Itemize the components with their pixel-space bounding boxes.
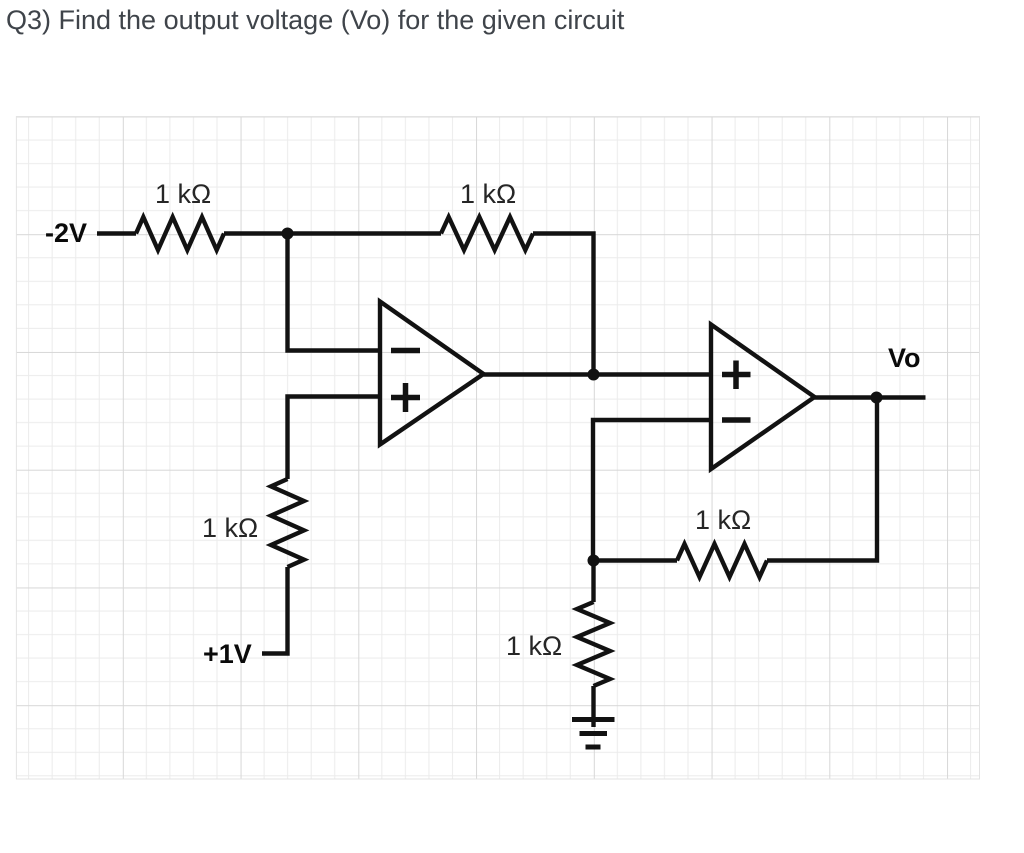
wire -2V lead [97, 231, 136, 235]
svg-text:1 kΩ: 1 kΩ [460, 179, 516, 209]
ground [572, 720, 615, 748]
op-amp U1 plus symbol [391, 383, 420, 412]
resistor R3 1 kΩ (vertical) [271, 479, 304, 567]
wire op1 output to op2 non-inverting input [484, 372, 712, 376]
node D junction dot [871, 392, 883, 404]
svg-text:1 kΩ: 1 kΩ [155, 179, 211, 209]
wire R3 to +1V [262, 567, 288, 654]
wire R4 to ground [591, 686, 595, 727]
svg-text:Vo: Vo [888, 343, 921, 373]
resistor R2 1 kΩ [441, 217, 533, 250]
svg-text:-2V: -2V [45, 218, 87, 248]
resistor R4 1 kΩ (vertical to ground) [577, 602, 610, 686]
svg-text:1 kΩ: 1 kΩ [506, 631, 562, 661]
svg-text:1 kΩ: 1 kΩ [202, 513, 258, 543]
op-amp U2 [711, 325, 815, 470]
resistor R5 1 kΩ (feedback) [677, 544, 767, 577]
wire op2 output Vo [815, 395, 926, 399]
grid background [16, 117, 979, 780]
resistor R1 1 kΩ [136, 217, 224, 250]
svg-text:1 kΩ: 1 kΩ [695, 505, 751, 535]
node C junction dot [588, 555, 600, 567]
op-amp U1 [380, 302, 484, 445]
node A junction dot [282, 228, 294, 240]
wire R2 to feedback corner down to op1 output node [533, 234, 594, 375]
wire op2 inverting input to node C [593, 420, 711, 561]
svg-text:+1V: +1V [203, 639, 252, 669]
wire node C down to R4 [591, 561, 595, 603]
op-amp U1 minus symbol [391, 348, 420, 354]
title [6, 5, 624, 36]
op-amp U2 minus symbol [722, 417, 751, 423]
wire node C to R5 [594, 558, 678, 562]
wire R5 to op2 output [767, 398, 877, 561]
wire node A down to op1 inverting input [288, 234, 381, 351]
wire node A to R2 [224, 231, 441, 235]
op-amp U2 plus symbol [722, 361, 751, 390]
node B junction dot [588, 369, 600, 381]
wire op1 non-inverting input from R3 branch [288, 397, 381, 480]
